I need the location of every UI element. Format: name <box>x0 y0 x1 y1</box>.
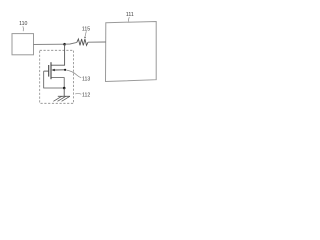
leader line for 115 <box>85 31 86 37</box>
wire from node A to resistor R <box>65 42 77 44</box>
ground hatch stroke 3 <box>62 96 70 101</box>
svg-text:110: 110 <box>19 21 27 27</box>
ground hatch stroke 1 <box>53 96 61 101</box>
leader line for 113 <box>66 70 81 78</box>
leader line for 110 <box>22 26 25 31</box>
node A junction dot <box>63 43 66 46</box>
body wire to leader tail <box>55 69 65 71</box>
wire from node B down to ground <box>63 88 65 96</box>
resistor 115 zigzag <box>77 39 88 45</box>
box 111 (right block) <box>106 22 157 82</box>
source lead wire of transistor 113 <box>51 78 64 88</box>
body arrow of transistor 113 <box>52 69 55 72</box>
gate lead wire <box>44 70 49 72</box>
transistor 113 channel bar <box>50 62 52 79</box>
wire from box 110 to node A <box>34 43 65 45</box>
wire node A down to drain of transistor 113 <box>51 44 64 65</box>
ground symbol top bar <box>58 95 70 97</box>
leader dot on resistor <box>84 37 85 38</box>
svg-text:113: 113 <box>82 77 90 83</box>
ground hatch stroke 2 <box>58 96 66 101</box>
box 110 (left block) <box>12 34 34 55</box>
dashed box 112 (protection circuit) <box>40 50 74 103</box>
leader line for 112 <box>75 93 81 96</box>
leader tail dot for 113 <box>64 69 66 71</box>
transistor 113 gate bar <box>48 65 50 77</box>
svg-text:111: 111 <box>126 12 134 18</box>
svg-text:112: 112 <box>82 93 90 99</box>
gate return wire to source (ggNMOS) <box>44 71 64 88</box>
leader line for 111 <box>128 17 131 22</box>
node B junction dot (gate-source tie) <box>63 87 66 90</box>
wire from resistor to box 111 <box>88 41 106 43</box>
